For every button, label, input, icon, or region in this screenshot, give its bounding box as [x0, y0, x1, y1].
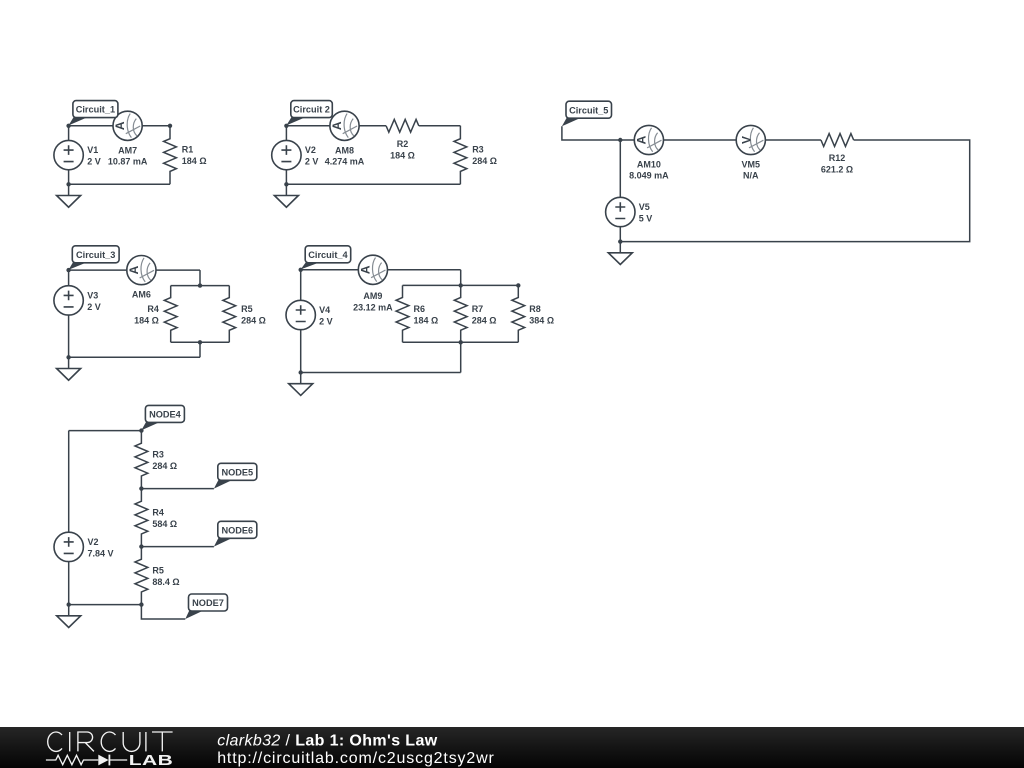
voltage source V1 [54, 140, 83, 169]
svg-text:88.4 Ω: 88.4 Ω [152, 577, 179, 587]
svg-text:NODE4: NODE4 [149, 410, 182, 420]
wire top rail right Circuit 2 [419, 125, 461, 127]
ground [57, 605, 81, 628]
node parallel bottom Circuit_4 [459, 340, 463, 344]
wire parallel bottom rail Circuit_4 [403, 341, 519, 343]
svg-text:LAB: LAB [129, 751, 173, 768]
svg-text:R6: R6 [414, 304, 426, 314]
voltage source V3 [54, 286, 83, 315]
svg-text:http://circuitlab.com/c2uscg2t: http://circuitlab.com/c2uscg2tsy2wr [217, 750, 495, 767]
node ladder bottom left [67, 602, 71, 606]
node parallel top Circuit_3 [198, 283, 202, 287]
svg-text:184 Ω: 184 Ω [134, 315, 159, 325]
wire V1 bottom lead [68, 170, 70, 185]
wire ladder top rail [69, 430, 142, 432]
svg-text:R7: R7 [472, 304, 484, 314]
wire V3 top lead [68, 270, 70, 286]
wire V4 bottom lead [300, 330, 302, 373]
wire parallel top rail Circuit_4 [403, 284, 519, 286]
svg-text:R3: R3 [152, 450, 164, 460]
voltage source V2 (ladder) [54, 532, 83, 561]
node Circuit_4 top [299, 268, 303, 272]
resistor R2 [386, 119, 419, 132]
svg-text:2 V: 2 V [305, 157, 319, 167]
wire NODE6 stub [141, 546, 214, 548]
svg-text:4.274 mA: 4.274 mA [325, 157, 365, 167]
wire junction drop Circuit_3 [199, 270, 201, 286]
svg-text:A: A [330, 121, 344, 130]
svg-text:R4: R4 [152, 508, 164, 518]
node Circuit_5 top [618, 138, 622, 142]
wire top rail Circuit_1 [69, 125, 170, 127]
resistor R4 [164, 286, 177, 343]
svg-text:7.84 V: 7.84 V [88, 548, 114, 558]
wire bottom rail Circuit_1 [69, 183, 170, 185]
svg-text:AM7: AM7 [118, 145, 137, 155]
svg-text:R4: R4 [147, 304, 159, 314]
wire V2 bottom lead [285, 170, 287, 185]
svg-text:AM10: AM10 [637, 160, 661, 170]
voltmeter VM5 [736, 125, 765, 154]
logo word LAB [129, 751, 173, 768]
svg-text:AM6: AM6 [132, 290, 151, 300]
node Circuit_1 top [66, 124, 70, 128]
svg-text:AM9: AM9 [363, 291, 382, 301]
ground [608, 242, 632, 265]
resistor R6 [396, 285, 409, 342]
svg-text:584 Ω: 584 Ω [152, 519, 177, 529]
wire junction drop bottom Circuit_3 [199, 342, 201, 357]
svg-text:23.12 mA: 23.12 mA [353, 302, 393, 312]
svg-text:NODE5: NODE5 [221, 467, 253, 477]
voltage source V5 [606, 197, 635, 226]
ammeter AM6 [127, 256, 156, 285]
svg-text:R8: R8 [529, 304, 541, 314]
svg-text:621.2 Ω: 621.2 Ω [821, 165, 853, 175]
ground [274, 184, 298, 207]
svg-text:R2: R2 [397, 139, 409, 149]
node ladder bottom junction [139, 602, 143, 606]
resistor R4 (ladder) [135, 489, 148, 547]
ground [57, 357, 81, 380]
wire V3 bottom lead [68, 315, 70, 357]
node Circuit_4 bottom [299, 370, 303, 374]
svg-text:R3: R3 [472, 145, 484, 155]
node flag NODE4 [141, 405, 184, 430]
node parallel top Circuit_4 [459, 283, 463, 287]
svg-text:A: A [113, 121, 127, 130]
svg-text:clarkb32 / Lab 1: Ohm's Law: clarkb32 / Lab 1: Ohm's Law [217, 732, 438, 749]
svg-text:2 V: 2 V [87, 302, 101, 312]
svg-text:Circuit 2: Circuit 2 [293, 105, 330, 115]
svg-text:A: A [635, 135, 649, 144]
svg-text:10.87 mA: 10.87 mA [108, 157, 148, 167]
svg-text:8.049 mA: 8.049 mA [629, 171, 669, 181]
svg-text:Circuit_1: Circuit_1 [76, 105, 115, 115]
svg-text:284 Ω: 284 Ω [472, 315, 497, 325]
node parallel bottom Circuit_3 [198, 340, 202, 344]
wire ladder left top [68, 431, 70, 533]
node R8 top [516, 283, 520, 287]
node flag NODE6 [214, 521, 257, 546]
resistor R3 [454, 126, 467, 185]
node flag Circuit_5 [562, 101, 612, 126]
node NODE4 [139, 428, 143, 432]
resistor R12 [821, 134, 854, 147]
node flag Circuit_4 [301, 246, 351, 270]
svg-text:NODE7: NODE7 [192, 598, 224, 608]
svg-text:5 V: 5 V [639, 214, 653, 224]
svg-text:184 Ω: 184 Ω [390, 150, 415, 160]
resistor R7 [454, 285, 467, 342]
wire junction drop bottom Circuit_4 [460, 342, 462, 372]
node flag NODE7 [185, 594, 227, 619]
svg-text:284 Ω: 284 Ω [472, 156, 497, 166]
ground [289, 373, 313, 396]
resistor R5 (ladder) [135, 547, 148, 605]
svg-text:V5: V5 [639, 202, 650, 212]
svg-text:V2: V2 [305, 145, 316, 155]
resistor R3 (ladder) [135, 431, 148, 489]
wire bottom rail Circuit_4 [301, 372, 461, 374]
node flag Circuit_3 [69, 246, 120, 270]
wire V1 top lead [68, 126, 70, 141]
svg-text:AM8: AM8 [335, 145, 354, 155]
wire junction drop Circuit_4 [460, 270, 462, 286]
svg-text:184 Ω: 184 Ω [182, 156, 207, 166]
node flag Circuit_1 [69, 101, 118, 126]
wire top rail left Circuit 2 [286, 125, 386, 127]
svg-text:VM5: VM5 [742, 160, 761, 170]
svg-text:V4: V4 [319, 305, 330, 315]
node Circuit_3 bottom [66, 355, 70, 359]
ammeter AM10 [634, 125, 663, 154]
svg-text:284 Ω: 284 Ω [241, 315, 266, 325]
ammeter AM9 [358, 255, 387, 284]
ammeter AM8 [330, 111, 359, 140]
svg-text:284 Ω: 284 Ω [152, 461, 177, 471]
wire parallel bottom rail Circuit_3 [171, 341, 230, 343]
svg-text:R12: R12 [829, 153, 846, 163]
wire right+bottom rail Circuit_5 [620, 140, 969, 242]
svg-text:Circuit_3: Circuit_3 [76, 250, 115, 260]
wire NODE7 stub [141, 605, 185, 619]
ground [57, 184, 81, 207]
ammeter AM7 [113, 111, 142, 140]
node Circuit_1 bottom [66, 182, 70, 186]
voltage source V4 [286, 300, 315, 329]
svg-text:A: A [359, 265, 373, 274]
wire bottom rail Circuit 2 [286, 183, 460, 185]
svg-text:V2: V2 [88, 537, 99, 547]
svg-text:184 Ω: 184 Ω [414, 315, 439, 325]
node Circuit 2 top [284, 124, 288, 128]
svg-text:384 Ω: 384 Ω [529, 315, 554, 325]
node Circuit 2 bottom [284, 182, 288, 186]
wire V4 top lead [300, 270, 302, 300]
svg-text:NODE6: NODE6 [221, 525, 253, 535]
wire V5 bottom lead [619, 226, 621, 241]
logo diode [98, 755, 108, 766]
resistor R1 [164, 126, 177, 185]
svg-text:Circuit_5: Circuit_5 [569, 105, 608, 115]
svg-text:2 V: 2 V [319, 317, 333, 327]
wire NODE5 stub [141, 488, 214, 490]
wire ladder left bottom [68, 562, 70, 605]
logo resistor zigzag [46, 755, 98, 764]
svg-text:R5: R5 [241, 304, 253, 314]
svg-text:V3: V3 [87, 290, 98, 300]
wire V5 top lead [619, 140, 621, 198]
CircuitLab logo word CIRCUIT [48, 732, 173, 751]
svg-text:V: V [739, 136, 753, 144]
svg-text:Circuit_4: Circuit_4 [308, 250, 348, 260]
node Circuit_3 top [66, 268, 70, 272]
node NODE6 [139, 544, 143, 548]
wire top rail Circuit_5 [562, 126, 821, 140]
svg-text:V1: V1 [87, 145, 98, 155]
node flag NODE5 [214, 463, 257, 488]
wire bottom rail Circuit_3 [69, 356, 200, 358]
node NODE5 [139, 486, 143, 490]
node flag Circuit 2 [286, 101, 332, 126]
node R1 top [168, 124, 172, 128]
wire V2 top lead [285, 126, 287, 141]
wire top rail Circuit_3 [69, 269, 200, 271]
svg-text:N/A: N/A [743, 171, 759, 181]
resistor R5 [223, 286, 236, 343]
wire ladder bottom rail [69, 604, 142, 606]
voltage source V2 [272, 140, 301, 169]
wire top rail Circuit_4 [301, 269, 461, 271]
node Circuit_5 bottom [618, 239, 622, 243]
resistor R8 [512, 285, 525, 342]
wire parallel top rail Circuit_3 [171, 285, 230, 287]
svg-text:R1: R1 [182, 145, 194, 155]
svg-text:2 V: 2 V [87, 157, 101, 167]
svg-text:R5: R5 [152, 566, 164, 576]
svg-text:A: A [127, 265, 141, 274]
